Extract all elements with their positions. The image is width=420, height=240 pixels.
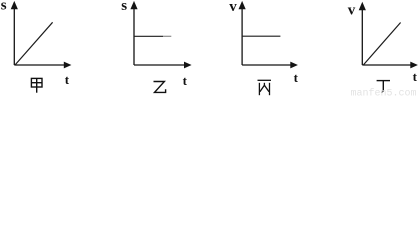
graph 丁 diagonal plot line (uniform acceleration v-t) <box>363 23 400 66</box>
graph 丁 caption character 丁 <box>377 81 390 93</box>
graph 甲 t-axis (horizontal) <box>14 62 71 69</box>
graph 乙 s-axis (vertical) <box>130 1 137 65</box>
svg-text:t: t <box>183 73 188 88</box>
graph 丙 caption character 丙 <box>258 80 272 95</box>
graph 甲 diagonal plot line (uniform motion s-t) <box>15 22 53 65</box>
svg-text:s: s <box>121 0 127 14</box>
svg-text:manfen5.com: manfen5.com <box>351 88 417 97</box>
graph 丁 v-axis (vertical) <box>359 2 366 65</box>
graph 丁 t-axis (horizontal) <box>362 62 418 69</box>
svg-text:v: v <box>348 2 356 18</box>
svg-text:s: s <box>1 0 7 13</box>
graph 乙 horizontal plot line (object at rest s-t) <box>134 35 171 37</box>
svg-text:v: v <box>229 0 237 15</box>
graph 甲 caption character 甲 <box>31 78 42 92</box>
graph 丙 horizontal plot line (constant velocity v-t) <box>242 35 280 37</box>
graph 甲 s-axis (vertical) <box>11 1 18 65</box>
graph 乙 t-axis (horizontal) <box>134 62 192 69</box>
svg-text:t: t <box>413 69 418 84</box>
svg-text:t: t <box>294 70 299 85</box>
graph 乙 caption character 乙 <box>154 82 166 93</box>
graph 丙 t-axis (horizontal) <box>242 62 298 69</box>
svg-text:t: t <box>65 72 70 87</box>
graph 丙 v-axis (vertical) <box>239 1 246 65</box>
